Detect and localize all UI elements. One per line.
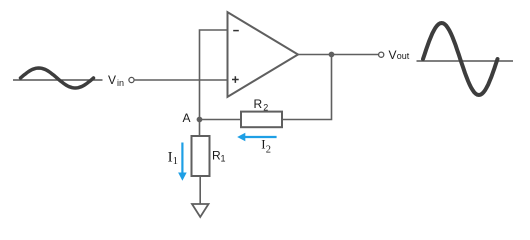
svg-text:V: V (108, 73, 116, 87)
svg-text:1: 1 (221, 154, 226, 164)
svg-text:in: in (117, 78, 124, 88)
svg-text:out: out (397, 51, 410, 61)
svg-text:1: 1 (173, 156, 178, 167)
svg-text:A: A (183, 111, 191, 125)
svg-text:2: 2 (266, 144, 271, 155)
svg-text:2: 2 (263, 103, 268, 113)
svg-text:R: R (254, 97, 263, 111)
svg-text:V: V (389, 48, 397, 62)
